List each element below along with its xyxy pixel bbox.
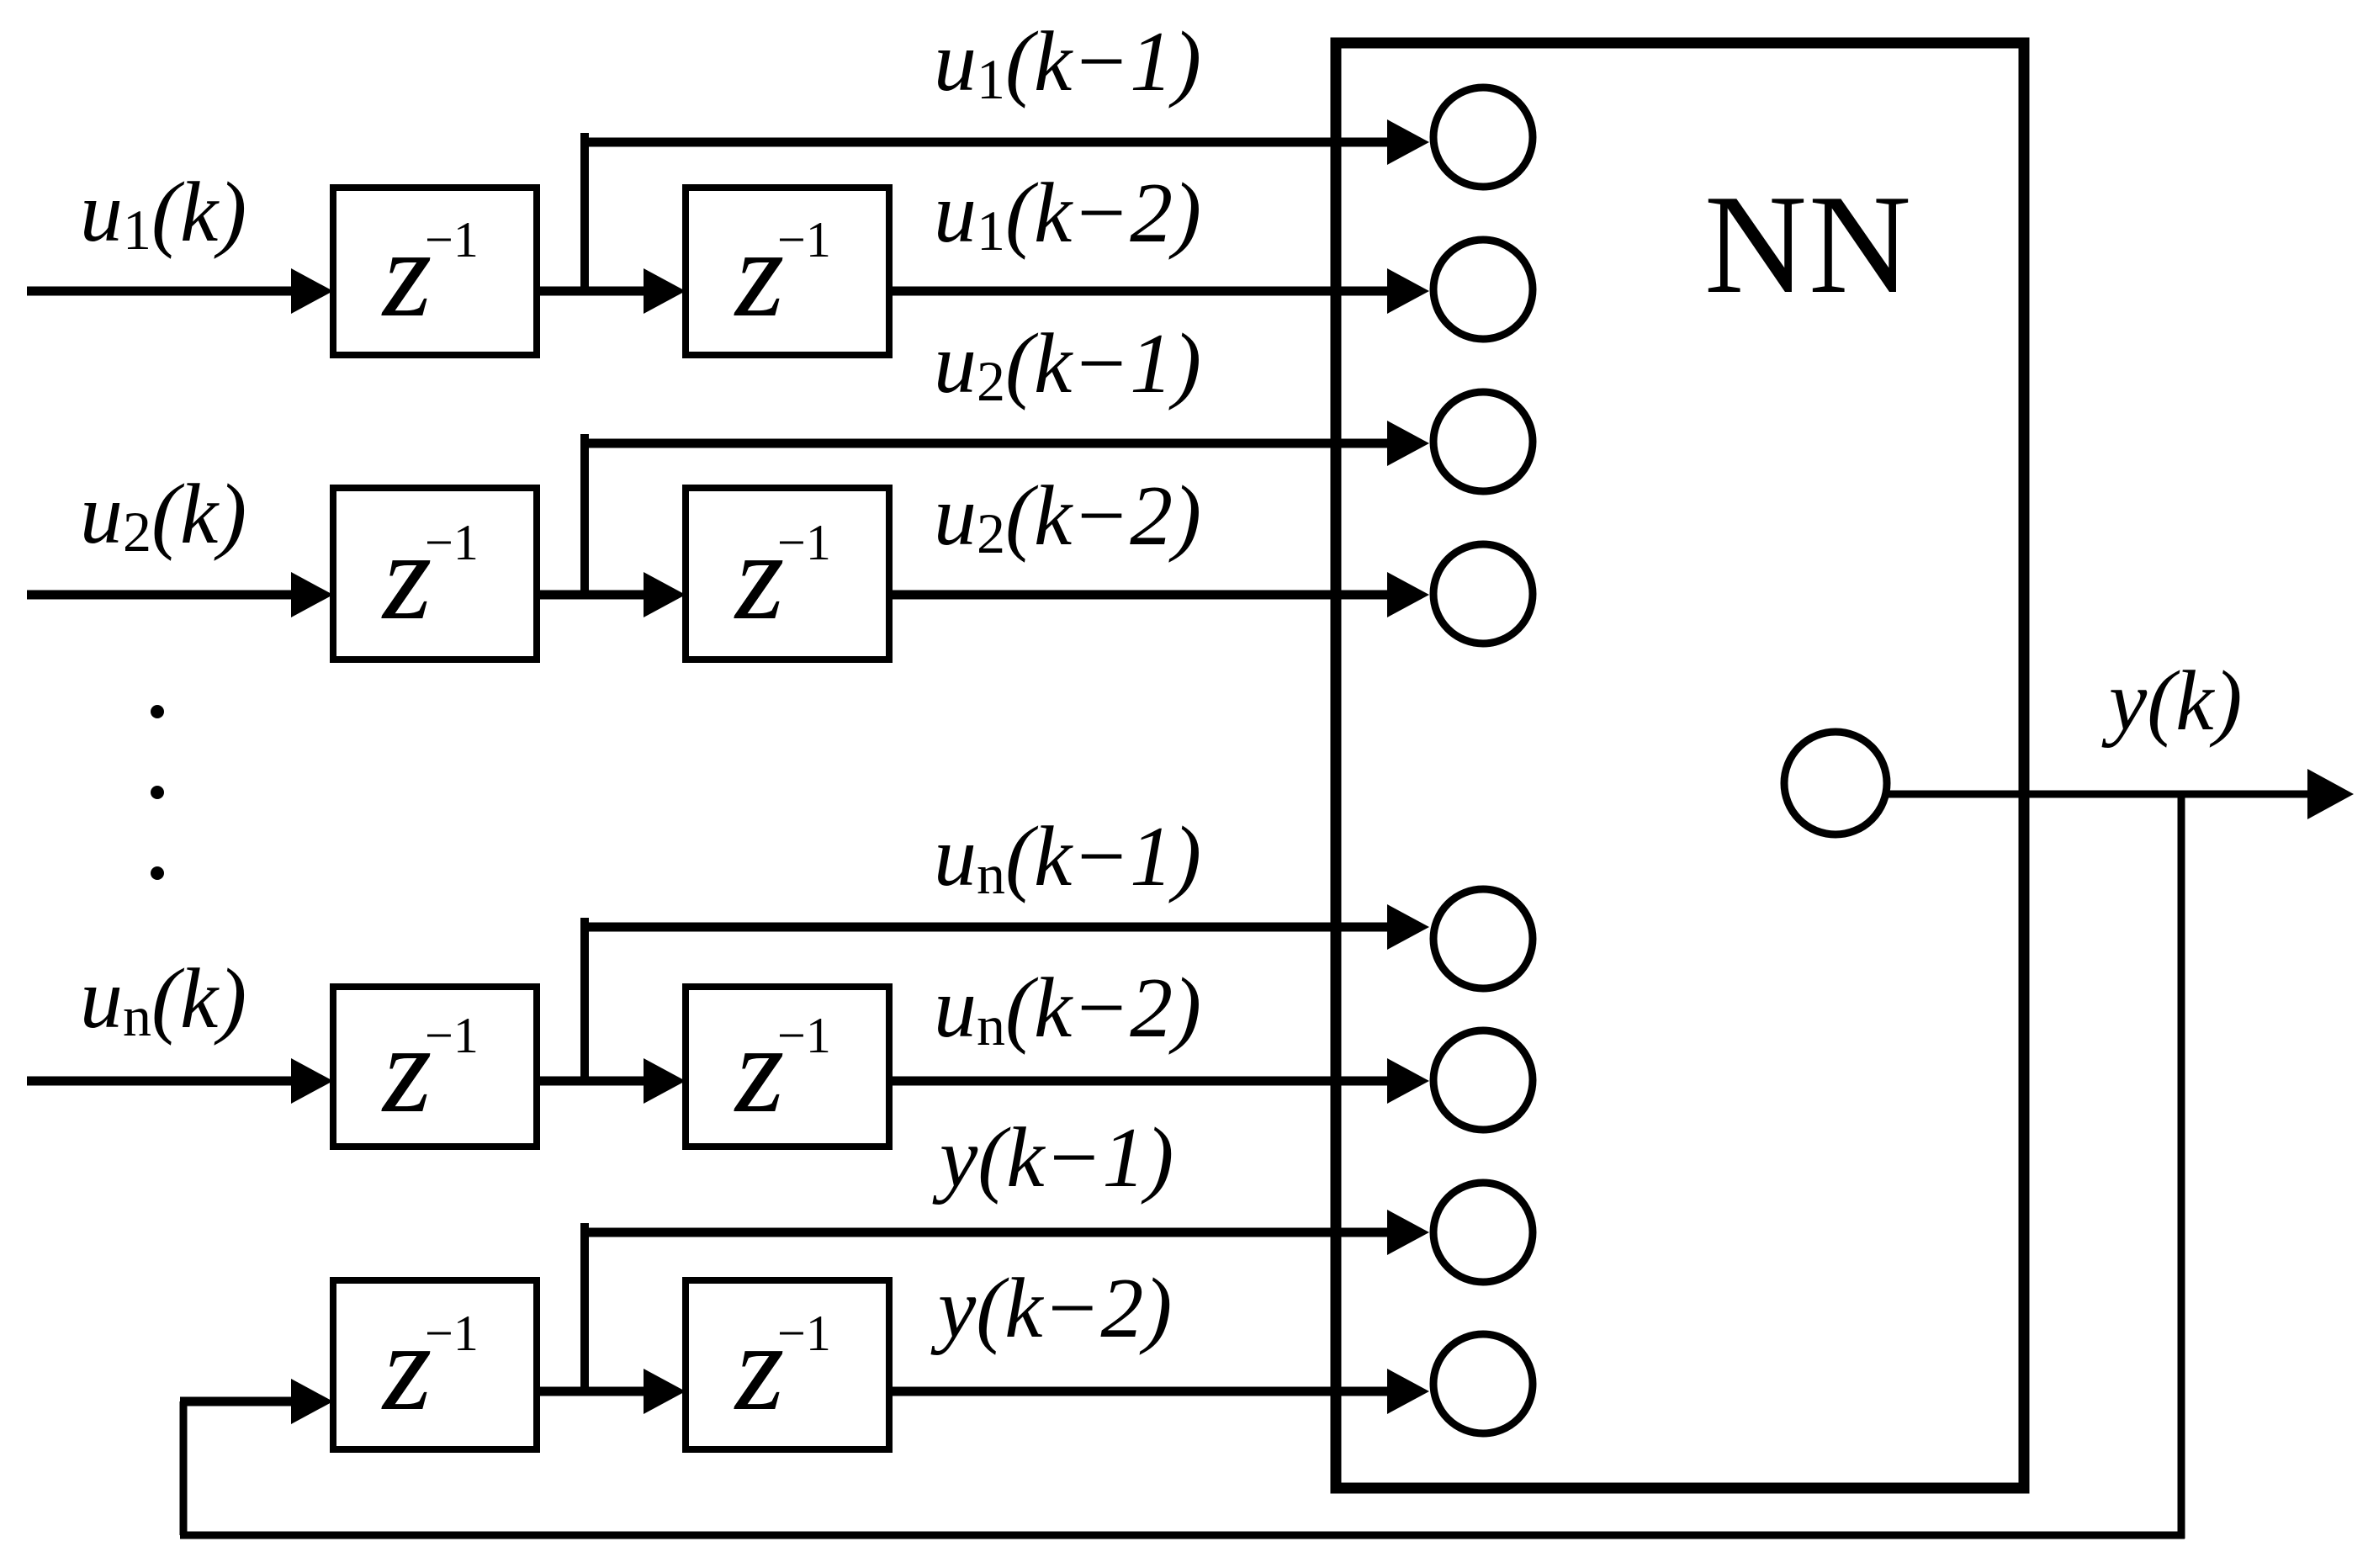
NN network box (1336, 43, 2024, 1488)
wire between delays u2 row (537, 591, 649, 600)
tap junction vertical un row (580, 918, 589, 1081)
delay block z^-1 second of y row (686, 1280, 889, 1449)
arrowhead u2(k-2) to NN (1387, 572, 1429, 617)
wire un(k-2) to NN (889, 1077, 1391, 1086)
wire u1(k-1) to NN (580, 138, 1391, 147)
wire y(k-2) to NN (889, 1387, 1391, 1396)
svg-text:y(k): y(k) (2101, 654, 2242, 749)
svg-text:u2​(k−1): u2​(k−1) (934, 316, 1201, 413)
delay block z^-1 first of u2 row (333, 488, 537, 660)
arrowhead y(k-2) to NN (1387, 1369, 1429, 1414)
arrowhead output y(k) (2307, 769, 2354, 819)
svg-text:−1: −1 (425, 1008, 479, 1063)
delay block z^-1 second of u1 row (686, 188, 889, 355)
svg-text:−1: −1 (777, 212, 831, 268)
svg-text:un​(k): un​(k) (80, 951, 246, 1048)
svg-text:−1: −1 (425, 1306, 479, 1361)
wire output y(k) (1887, 791, 2312, 798)
delay block z^-1 first of y row (333, 1280, 537, 1449)
delay block z^-1 first of un row (333, 987, 537, 1147)
svg-text:−1: −1 (777, 515, 831, 570)
arrowhead u2(k-1) to NN (1387, 421, 1429, 466)
arrowhead into first delay y row (291, 1379, 333, 1424)
ellipsis dot 3 (151, 866, 164, 880)
input neuron node y(k-1) (1433, 1183, 1533, 1282)
svg-text:NN: NN (1704, 165, 1913, 323)
wire between delays y row (537, 1387, 649, 1396)
input neuron node u2(k-2) (1433, 544, 1533, 644)
svg-text:y(k−2): y(k−2) (930, 1261, 1172, 1356)
input neuron node un(k-1) (1433, 889, 1533, 988)
svg-text:u2​(k−2): u2​(k−2) (934, 469, 1201, 565)
svg-text:un​(k−1): un​(k−1) (934, 809, 1201, 906)
arrowhead un(k-1) to NN (1387, 904, 1429, 950)
svg-text:−1: −1 (777, 1306, 831, 1361)
svg-text:u1​(k−1): u1​(k−1) (934, 14, 1201, 111)
input neuron node u2(k-1) (1433, 392, 1533, 491)
wire feedback vertical left (180, 1401, 188, 1535)
wire y(k-1) to NN (580, 1228, 1391, 1237)
tap junction vertical y row (580, 1223, 589, 1391)
wire input un(k) into delay (27, 1077, 296, 1086)
wire feedback bottom (180, 1532, 2185, 1539)
wire un(k-1) to NN (580, 923, 1391, 932)
tap junction vertical u1 row (580, 133, 589, 291)
input neuron node y(k-2) (1433, 1334, 1533, 1433)
arrowhead into second delay y row (644, 1369, 686, 1414)
arrowhead into second delay u1 row (644, 268, 686, 314)
arrowhead into second delay u2 row (644, 572, 686, 617)
delay block z^-1 second of un row (686, 987, 889, 1147)
svg-text:u1​(k): u1​(k) (80, 165, 246, 262)
output neuron node (1784, 732, 1887, 834)
svg-text:u2​(k): u2​(k) (80, 467, 246, 564)
input neuron node u1(k-2) (1433, 240, 1533, 339)
wire u2(k-1) to NN (580, 439, 1391, 448)
svg-text:−1: −1 (777, 1008, 831, 1063)
ellipsis dot 2 (151, 786, 164, 799)
delay block z^-1 second of u2 row (686, 488, 889, 660)
wire u1(k-2) to NN (889, 287, 1391, 296)
delay block z^-1 first of u1 row (333, 188, 537, 355)
svg-text:u1​(k−2): u1​(k−2) (934, 166, 1201, 262)
input neuron node un(k-2) (1433, 1030, 1533, 1130)
svg-text:−1: −1 (425, 515, 479, 570)
wire feedback into first delay of y row (180, 1397, 296, 1406)
svg-text:−1: −1 (425, 212, 479, 268)
arrowhead y(k-1) to NN (1387, 1210, 1429, 1255)
wire input u2(k) into delay (27, 591, 296, 600)
arrowhead un(k-2) to NN (1387, 1058, 1429, 1104)
arrowhead u1(k-1) to NN (1387, 119, 1429, 165)
arrowhead into first delay un row (291, 1058, 333, 1104)
tap junction vertical u2 row (580, 434, 589, 595)
ellipsis dot 1 (151, 705, 164, 718)
wire input u1(k) into delay (27, 287, 296, 296)
arrowhead into first delay u1 row (291, 268, 333, 314)
wire feedback vertical right (2178, 794, 2185, 1539)
wire between delays un row (537, 1077, 649, 1086)
wire between delays u1 row (537, 287, 649, 296)
arrowhead into second delay un row (644, 1058, 686, 1104)
input neuron node u1(k-1) (1433, 87, 1533, 187)
arrowhead into first delay u2 row (291, 572, 333, 617)
svg-text:y(k−1): y(k−1) (932, 1110, 1173, 1205)
arrowhead u1(k-2) to NN (1387, 268, 1429, 314)
svg-text:un​(k−2): un​(k−2) (934, 961, 1201, 1057)
wire u2(k-2) to NN (889, 591, 1391, 600)
